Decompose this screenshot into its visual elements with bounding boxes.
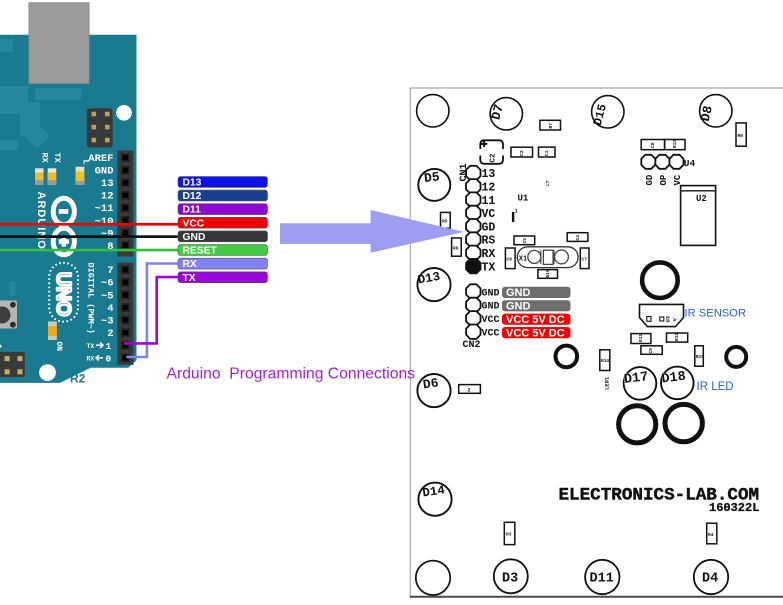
- pad U4 VC: [670, 155, 684, 169]
- label box TX: [178, 272, 268, 283]
- svg-text:160322L: 160322L: [709, 501, 759, 515]
- UNO text: [49, 263, 78, 322]
- net box GND: [502, 287, 571, 298]
- svg-text:VC: VC: [673, 174, 683, 185]
- pad CN1 pin 11: [466, 192, 480, 206]
- svg-text:UNO: UNO: [52, 272, 74, 316]
- diode D7: [490, 98, 522, 130]
- svg-text:12: 12: [101, 191, 114, 203]
- svg-text:DIGITAL (PWM~): DIGITAL (PWM~): [86, 263, 96, 334]
- label box GND: [178, 231, 268, 242]
- diode D11pcb: [585, 560, 619, 594]
- diode D8: [700, 95, 732, 127]
- IR LED D18: [661, 367, 694, 400]
- svg-text:C4: C4: [575, 235, 581, 241]
- USB connector: [29, 3, 89, 84]
- svg-text:VCC: VCC: [482, 329, 500, 340]
- svg-text:TX: TX: [52, 153, 62, 164]
- pad CN2 pin VCC: [466, 311, 480, 325]
- svg-text:TX: TX: [482, 261, 496, 274]
- svg-text:~11: ~11: [95, 203, 114, 215]
- svg-text:IR LED: IR LED: [697, 381, 734, 393]
- svg-text:R11: R11: [638, 334, 644, 342]
- resistor R7: [540, 120, 561, 130]
- hole top-left: [417, 95, 449, 127]
- capacitor C3: [511, 147, 533, 157]
- resistor R4: [707, 523, 717, 544]
- pin labels AREF..8: [88, 153, 113, 253]
- svg-text:D11: D11: [590, 572, 614, 587]
- svg-text:D3: D3: [502, 572, 518, 587]
- Arduino infinity logo: [53, 198, 74, 254]
- wire VCC (red): [0, 223, 179, 226]
- svg-text:GD: GD: [645, 174, 655, 185]
- svg-text:R15: R15: [696, 354, 704, 360]
- resistor R5: [441, 212, 451, 228]
- svg-text:~5: ~5: [101, 290, 114, 302]
- svg-text:D18: D18: [661, 370, 687, 388]
- big arrow: [280, 210, 464, 253]
- svg-text:>: >: [673, 317, 677, 324]
- pad CN2 pin VCC: [466, 325, 480, 339]
- capacitor C8: [641, 140, 664, 150]
- svg-text:D11: D11: [183, 205, 202, 216]
- svg-text:U3: U3: [665, 315, 672, 322]
- svg-text:D13: D13: [183, 178, 202, 189]
- IR LED D17: [624, 367, 657, 400]
- svg-text:C9: C9: [648, 348, 654, 354]
- svg-text:C7: C7: [582, 257, 588, 263]
- svg-text:R6: R6: [453, 246, 459, 252]
- svg-text:R13: R13: [672, 140, 678, 148]
- svg-text:RX: RX: [87, 356, 95, 363]
- diode D15: [592, 96, 624, 128]
- pad CN1 pin RX: [466, 246, 480, 260]
- resistor R15: [695, 346, 704, 366]
- svg-text:2: 2: [107, 328, 113, 340]
- diode D5: [418, 169, 450, 201]
- svg-text:OP: OP: [659, 174, 669, 185]
- ring pad right: [726, 347, 746, 367]
- digital pin header lower (7..0): [117, 263, 133, 365]
- svg-text:~6: ~6: [101, 278, 114, 290]
- capacitor C4: [567, 233, 588, 242]
- diode D14: [418, 483, 451, 516]
- svg-text:Arduino Programming Connectio: Arduino Programming Connections: [167, 365, 416, 382]
- svg-text:D5: D5: [423, 169, 440, 186]
- resistor R9: [736, 123, 746, 146]
- svg-text:D6: D6: [422, 375, 440, 392]
- wire TX (purple): [124, 277, 179, 343]
- capacitor C7: [580, 248, 589, 269]
- ON LED: [48, 322, 57, 341]
- svg-text:11: 11: [482, 195, 496, 208]
- svg-text:TX: TX: [87, 343, 95, 350]
- svg-text:C2: C2: [490, 153, 498, 163]
- svg-text:R9: R9: [738, 133, 744, 139]
- resistor R13: [665, 140, 685, 150]
- wire RESET (green): [0, 249, 179, 252]
- label box VCC: [178, 217, 268, 228]
- L LED: [76, 167, 85, 185]
- svg-text:R2: R2: [70, 372, 86, 386]
- PCB board outline: [410, 88, 783, 597]
- svg-text:ON: ON: [54, 342, 63, 352]
- svg-text:CN2: CN2: [463, 340, 481, 351]
- label box D12: [178, 190, 268, 201]
- svg-text:7: 7: [107, 265, 113, 277]
- svg-text:U4: U4: [684, 158, 696, 169]
- label box D13: [178, 177, 268, 188]
- wire GND (black): [0, 235, 179, 238]
- IR sensor dome: [642, 262, 678, 298]
- pad CN1 pin VC: [466, 206, 480, 220]
- svg-text:GND: GND: [482, 288, 500, 299]
- mounting hole top: [116, 105, 132, 121]
- IR sensor U3 body: [640, 304, 684, 326]
- svg-text:RS: RS: [482, 235, 496, 248]
- svg-text:GD: GD: [482, 221, 496, 234]
- svg-text:VCC 5V DC: VCC 5V DC: [506, 314, 565, 326]
- capacitor C6: [505, 248, 515, 269]
- svg-text:12: 12: [482, 182, 496, 195]
- svg-text:ARDUINO: ARDUINO: [35, 192, 47, 250]
- svg-text:R14: R14: [601, 358, 609, 364]
- svg-text:LT: LT: [545, 180, 551, 186]
- label box D11: [178, 204, 268, 215]
- net box VCC 5V DC: [502, 327, 571, 338]
- reset button: [0, 301, 17, 329]
- svg-text:GND: GND: [183, 232, 206, 243]
- capacitor C9: [641, 346, 662, 355]
- svg-text:~3: ~3: [101, 316, 114, 328]
- svg-text:X1: X1: [519, 256, 527, 264]
- pad CN1 pin 13: [466, 166, 480, 180]
- svg-text:GND: GND: [506, 301, 531, 313]
- svg-text:~9: ~9: [101, 228, 114, 240]
- svg-text:C3: C3: [519, 150, 525, 156]
- diode D13: [417, 268, 450, 301]
- resistor R3: [504, 522, 515, 544]
- pad U4 GD: [641, 155, 655, 169]
- RX LED: [35, 168, 44, 185]
- diode D4: [694, 560, 728, 594]
- pad U4 OP: [655, 155, 669, 169]
- label box RESET: [178, 245, 268, 256]
- svg-text:13: 13: [482, 168, 496, 181]
- svg-text:IR SENSOR: IR SENSOR: [685, 308, 747, 320]
- resistor R14: [600, 350, 610, 371]
- pad CN2 pin GND: [466, 284, 480, 298]
- pad CN1 pin GD: [466, 219, 480, 233]
- svg-text:R4: R4: [708, 532, 714, 538]
- pin labels 7..2: [101, 265, 114, 340]
- svg-text:~10: ~10: [95, 216, 114, 228]
- svg-text:D4: D4: [702, 572, 718, 587]
- svg-text:U2: U2: [696, 194, 707, 204]
- net box VCC 5V DC: [502, 314, 571, 325]
- IC U2: [681, 186, 716, 246]
- svg-text:D10: D10: [545, 269, 551, 277]
- svg-text:LED1: LED1: [604, 376, 611, 390]
- 2x2 power header: [0, 352, 25, 377]
- svg-text:VCC: VCC: [482, 315, 500, 326]
- TX LED: [48, 168, 57, 185]
- diode D6: [417, 374, 450, 407]
- svg-text:U1: U1: [518, 194, 529, 204]
- svg-text:2: 2: [468, 388, 471, 394]
- capacitor C5: [514, 236, 535, 245]
- svg-text:D17: D17: [623, 370, 649, 388]
- svg-text:GND: GND: [482, 302, 500, 313]
- svg-text:0: 0: [106, 353, 112, 364]
- wire RX (periwinkle): [126, 264, 178, 358]
- svg-text:1: 1: [106, 341, 112, 352]
- svg-text:VCC 5V DC: VCC 5V DC: [506, 327, 565, 339]
- resistor R12: [667, 333, 688, 342]
- resistor R2pcb: [459, 385, 481, 394]
- svg-text:D12: D12: [183, 191, 202, 202]
- pin 1 mark U1: [512, 212, 514, 222]
- pad CN2 pin GND: [466, 298, 480, 312]
- svg-text:C5: C5: [522, 238, 528, 244]
- LED ring 2: [665, 404, 702, 441]
- svg-text:1: 1: [515, 209, 518, 215]
- diode D10: [538, 270, 558, 279]
- net box GND: [502, 300, 571, 311]
- svg-text:4: 4: [107, 303, 113, 315]
- pad CN1 pin RS: [466, 232, 480, 246]
- svg-text:VC: VC: [482, 208, 496, 221]
- svg-text:AREF: AREF: [88, 153, 113, 165]
- svg-text:RX: RX: [40, 153, 50, 164]
- svg-text:R3: R3: [506, 532, 512, 538]
- svg-text:GND: GND: [506, 287, 531, 299]
- label box RX: [178, 258, 268, 269]
- svg-text:13: 13: [101, 178, 114, 190]
- svg-text:GND: GND: [95, 166, 114, 178]
- ICSP header: [87, 108, 113, 147]
- svg-text:RESET: RESET: [183, 246, 218, 257]
- Arduino UNO board: [0, 35, 137, 383]
- svg-text:R12: R12: [674, 333, 680, 341]
- svg-text:RX: RX: [183, 259, 197, 270]
- capacitor C1: [539, 147, 556, 157]
- svg-text:C6: C6: [507, 257, 513, 263]
- pad CN1 pin 12: [466, 179, 480, 193]
- ring pad left: [556, 346, 578, 368]
- svg-text:C8: C8: [650, 142, 656, 148]
- LED ring 1: [619, 406, 656, 443]
- digital pin header upper (AREF..8): [117, 151, 133, 257]
- crystal X1: [517, 247, 578, 268]
- pad CN1 pin TX: [466, 259, 480, 273]
- capacitor C2: [480, 140, 503, 149]
- svg-text:R7: R7: [548, 123, 554, 129]
- resistor R11: [631, 334, 651, 344]
- svg-text:R5: R5: [442, 219, 448, 225]
- hole bottom-left: [416, 561, 450, 595]
- mounting hole bottom: [39, 364, 56, 381]
- svg-text:RX: RX: [482, 248, 496, 261]
- svg-text:P: P: [0, 344, 2, 353]
- resistor R6: [452, 238, 462, 256]
- svg-text:C1: C1: [544, 150, 550, 156]
- svg-text:TX: TX: [183, 273, 196, 284]
- svg-text:VCC: VCC: [183, 218, 205, 229]
- diode D3: [494, 559, 528, 593]
